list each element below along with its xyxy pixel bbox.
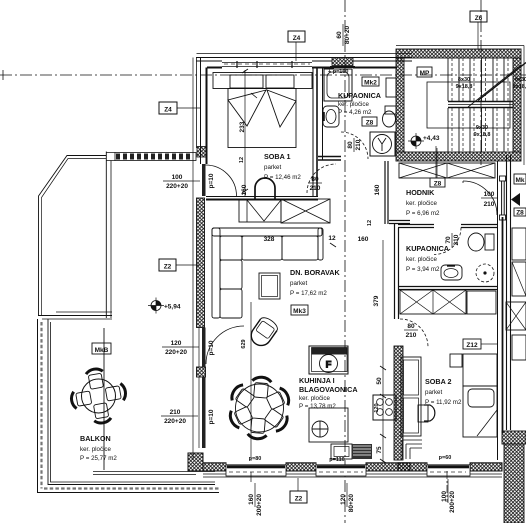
svg-text:BLAGOVAONICA: BLAGOVAONICA (299, 385, 358, 394)
svg-text:210: 210 (484, 201, 495, 208)
stair block hatched walls (396, 49, 521, 58)
window centerline kitchen1 (250, 302, 252, 461)
svg-text:p=110: p=110 (329, 457, 344, 463)
bath1 bottom wall (318, 157, 341, 161)
soba2 corner steps bottom-left (402, 440, 422, 459)
svg-text:ker. pločice: ker. pločice (299, 395, 331, 402)
svg-text:Z2: Z2 (295, 496, 303, 503)
entry door leaf (500, 176, 506, 181)
svg-text:Mk: Mk (515, 177, 524, 184)
svg-text:Z12: Z12 (466, 342, 478, 349)
living balcony door arc (206, 326, 244, 364)
svg-text:P = 12,46 m2: P = 12,46 m2 (264, 174, 301, 181)
svg-text:80+20: 80+20 (348, 494, 355, 513)
left wall lower: hatched stub + glass leaves (197, 367, 206, 377)
svg-text:P = 4,26 m2: P = 4,26 m2 (338, 109, 372, 116)
svg-text:P = 11,92 m2: P = 11,92 m2 (425, 399, 462, 406)
label Mk2 (362, 77, 379, 86)
svg-text:12: 12 (239, 157, 245, 163)
bed soba1 duvet flaps (228, 90, 266, 126)
svg-text:+5,94: +5,94 (164, 304, 181, 311)
soba2 wardrobe right top (463, 354, 497, 386)
soba1 entry door dashed (307, 164, 336, 193)
svg-text:160: 160 (241, 184, 248, 195)
top exterior wall (196, 57, 412, 59)
svg-text:210: 210 (170, 409, 181, 416)
dim line right kitchen (382, 240, 384, 462)
svg-text:parket: parket (290, 280, 307, 287)
svg-text:p=10: p=10 (208, 173, 215, 188)
bath2 shower (476, 264, 494, 282)
svg-text:p=10: p=10 (208, 340, 215, 355)
svg-text:160: 160 (248, 494, 255, 505)
label MP (417, 67, 432, 77)
bath1 top window hatched (332, 58, 353, 66)
label MkB (92, 343, 111, 354)
label Z12 (463, 339, 481, 349)
stair treads lower flight (448, 108, 508, 152)
svg-text:Z4: Z4 (293, 35, 301, 42)
svg-text:50: 50 (376, 377, 383, 385)
balcony inner floor edge (93, 471, 215, 473)
hodnik closet (399, 163, 495, 178)
soba2 bottom wall hatched (398, 463, 427, 471)
svg-text:120: 120 (374, 403, 380, 412)
label Z8 hodnik (430, 178, 445, 187)
svg-text:+ p=160: + p=160 (328, 69, 349, 75)
soba2 desk chair (418, 405, 428, 422)
svg-text:MkB: MkB (95, 347, 109, 354)
svg-text:233: 233 (239, 121, 246, 132)
svg-text:9x18,8: 9x18,8 (513, 84, 526, 90)
svg-text:8x30: 8x30 (515, 77, 526, 83)
svg-text:9x18,8: 9x18,8 (474, 132, 491, 138)
wardrobe living (281, 199, 330, 223)
svg-text:KUPAONICA: KUPAONICA (338, 91, 381, 100)
svg-text:9x18,8: 9x18,8 (456, 84, 473, 90)
svg-text:p=60: p=60 (439, 455, 452, 461)
bath1 left wall installation layer (322, 68, 324, 160)
svg-text:80: 80 (407, 323, 415, 330)
svg-text:parket: parket (264, 164, 281, 171)
railing ticks top (115, 153, 196, 161)
svg-text:SOBA 2: SOBA 2 (425, 377, 452, 386)
dressing table living (239, 200, 281, 222)
dishwasher striped (352, 444, 372, 459)
left exterior wall soba1 (200, 58, 202, 165)
soba1 bottom wall (206, 196, 318, 198)
svg-text:Z4: Z4 (164, 107, 172, 114)
terrace step to lower balcony (38, 315, 112, 317)
soba2 bed (463, 386, 497, 437)
label Z2 bottom (290, 491, 307, 503)
lower balcony parapet (48, 319, 215, 485)
svg-text:70: 70 (445, 236, 452, 244)
svg-text:HODNIK: HODNIK (406, 188, 435, 197)
soba2 wardrobe row top (400, 290, 466, 314)
bottom-left hatched corner (188, 453, 203, 471)
stair eye rect (427, 82, 510, 128)
svg-text:200+20: 200+20 (256, 494, 263, 516)
dim 100/200+20 bottom right (446, 471, 448, 502)
label Mk3 (291, 305, 308, 315)
label Z6 top (470, 11, 487, 22)
svg-text:80: 80 (347, 141, 354, 149)
axis line vertical center (344, 0, 346, 523)
svg-text:160: 160 (358, 236, 369, 243)
svg-text:ker. pločice: ker. pločice (406, 256, 438, 263)
svg-text:328: 328 (264, 236, 275, 243)
axis line vertical stair (480, 0, 482, 165)
soba1 window top (222, 63, 312, 67)
svg-text:parket: parket (425, 389, 442, 396)
neighbour corridor wall (507, 155, 511, 430)
svg-text:Z2: Z2 (164, 264, 172, 271)
svg-text:P = 6,96 m2: P = 6,96 m2 (406, 210, 440, 217)
svg-text:ker. pločice: ker. pločice (338, 101, 370, 108)
dim 233 soba1 (244, 70, 246, 196)
window w1 (226, 465, 286, 476)
bath1 washing machine (370, 132, 395, 156)
svg-text:BALKON: BALKON (80, 434, 111, 443)
level +5.94 (148, 298, 181, 314)
svg-text:629: 629 (241, 339, 247, 348)
outermost thin boundary (42, 322, 220, 489)
soba1 balcony door arc (206, 165, 237, 196)
outer thin contour top-left (196, 58, 198, 149)
svg-text:+4,43: +4,43 (423, 135, 440, 142)
terrace parapet inner edge (105, 152, 107, 319)
bath2 toilet (485, 234, 494, 250)
svg-text:DN. BORAVAK: DN. BORAVAK (290, 268, 340, 277)
svg-text:Z8: Z8 (434, 181, 442, 188)
svg-text:120: 120 (340, 494, 347, 505)
bath1 door dashed (341, 132, 368, 159)
balcony section line (103, 328, 105, 470)
svg-text:12: 12 (367, 220, 373, 226)
bed soba1 body (228, 89, 296, 148)
svg-text:220+20: 220+20 (166, 183, 188, 190)
soba2 door dashed (400, 319, 428, 347)
svg-text:Mk3: Mk3 (293, 308, 306, 315)
left wall hatched stub at terrace junction (197, 147, 206, 158)
svg-text:F: F (326, 360, 332, 371)
kitchen lower cabinet (331, 444, 352, 459)
balcony chairs (70, 368, 127, 425)
svg-text:9x30: 9x30 (476, 125, 488, 131)
hodnik entry arc (463, 181, 497, 215)
svg-text:120: 120 (171, 340, 182, 347)
svg-text:p=10: p=10 (208, 409, 215, 424)
bath1 sink (323, 106, 339, 127)
hodnik bottom wall / bath2 top (389, 221, 410, 224)
svg-text:Z8: Z8 (366, 120, 374, 127)
soba2 nightstand (450, 354, 462, 367)
window w3 (427, 465, 470, 476)
svg-text:Z8: Z8 (516, 210, 524, 217)
bottom exterior wall kitchen (hatched) (203, 463, 226, 471)
svg-text:220+20: 220+20 (164, 418, 186, 425)
svg-text:210: 210 (355, 139, 362, 150)
level +4.43 (408, 133, 440, 178)
dining chairs (228, 376, 292, 439)
label Z2 left (159, 259, 176, 271)
svg-text:ker. pločice: ker. pločice (80, 446, 112, 453)
bath1 shower (324, 69, 352, 101)
neighbour bottom walls (502, 431, 526, 444)
coffee table (259, 273, 280, 299)
label Z4 left (159, 102, 177, 114)
svg-text:210: 210 (310, 185, 321, 192)
bath1 boiler (386, 78, 396, 97)
label Z4 top (288, 31, 305, 42)
window w2 (316, 465, 366, 476)
svg-text:200+20: 200+20 (449, 491, 456, 513)
svg-text:Z6: Z6 (475, 15, 483, 22)
kitchen/right wing wall (395, 224, 399, 319)
bath1 toilet (385, 106, 396, 114)
svg-text:80: 80 (311, 176, 319, 183)
svg-text:379: 379 (373, 295, 380, 306)
svg-text:P = 3,94 m2: P = 3,94 m2 (406, 266, 440, 273)
svg-text:100: 100 (172, 174, 183, 181)
svg-text:KUHINJA I: KUHINJA I (299, 376, 335, 385)
svg-text:KUPAONICA: KUPAONICA (406, 244, 449, 253)
svg-text:Mk2: Mk2 (364, 80, 377, 87)
svg-text:100: 100 (484, 191, 495, 198)
svg-text:ker. pločice: ker. pločice (406, 200, 438, 207)
entrance arrow (511, 193, 520, 206)
svg-text:12: 12 (328, 235, 336, 242)
soba1 right wall (312, 68, 314, 196)
stair landing band (448, 102, 513, 108)
label Mi right edge (514, 174, 526, 184)
svg-text:210: 210 (453, 234, 460, 245)
svg-text:P = 17,62 m2: P = 17,62 m2 (290, 290, 327, 297)
dining table (236, 384, 284, 432)
svg-text:100: 100 (441, 491, 448, 502)
bed soba1 headboard + nightstands (213, 73, 312, 89)
kitchen counter (309, 408, 348, 442)
svg-text:80+20: 80+20 (344, 25, 351, 44)
balcony table (82, 379, 116, 413)
neighbour fragments right (512, 228, 526, 260)
svg-text:210: 210 (406, 332, 417, 339)
bottom outer face lines (203, 474, 410, 477)
stair treads upper flight (448, 58, 508, 101)
svg-text:60: 60 (336, 31, 343, 39)
soba2 wardrobe left column (401, 357, 421, 436)
svg-text:160: 160 (374, 184, 381, 195)
right exterior wall (497, 161, 499, 460)
stove (373, 395, 396, 420)
armchair (247, 315, 279, 349)
terrace outer edge (39, 156, 107, 316)
svg-text:SOBA 1: SOBA 1 (264, 152, 291, 161)
hall wall vertical right (385, 161, 388, 224)
svg-text:75: 75 (376, 446, 383, 454)
svg-text:8x30: 8x30 (458, 77, 470, 83)
sofa L (212, 228, 323, 318)
svg-text:220+20: 220+20 (165, 349, 187, 356)
svg-text:P = 25,77 m2: P = 25,77 m2 (80, 455, 117, 462)
hatched wall terrace/living (197, 198, 205, 328)
bath2 door dashed (434, 228, 461, 255)
axis line horizontal (0, 74, 526, 76)
svg-text:MP: MP (420, 70, 430, 77)
soba1 chair (255, 178, 275, 199)
label Z8 bath1 (362, 117, 377, 126)
svg-text:p=80: p=80 (249, 456, 262, 462)
soba1 balcony door leaf (202, 164, 206, 196)
stair up arrow diagonal (478, 63, 526, 101)
fridge (309, 346, 348, 374)
svg-text:P = 13,78 m2: P = 13,78 m2 (299, 403, 336, 410)
bath2 bottom wall (398, 287, 497, 290)
bath2 sink (441, 265, 462, 280)
